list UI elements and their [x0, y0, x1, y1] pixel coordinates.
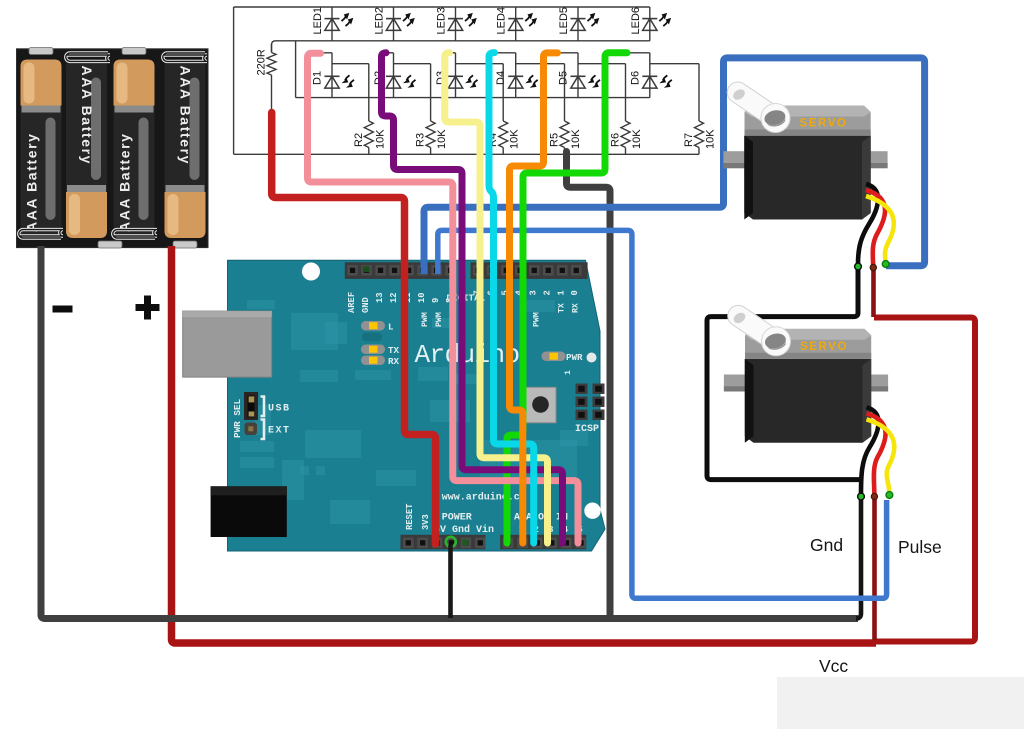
svg-text:LED3: LED3	[436, 7, 448, 35]
node servo2 red connector	[871, 493, 877, 499]
svg-text:Arduino: Arduino	[415, 340, 520, 370]
svg-text:LED5: LED5	[558, 7, 570, 35]
svg-text:PWM: PWM	[421, 312, 430, 327]
svg-text:PWR: PWR	[566, 352, 583, 363]
svg-text:PWM: PWM	[435, 312, 444, 327]
node servo1 yellow connector	[882, 261, 889, 268]
svg-text:PWM: PWM	[533, 312, 542, 327]
resistor R1 220R	[256, 44, 277, 115]
wire schematic R5 node to ground rail	[567, 152, 611, 619]
svg-text:Pulse: Pulse	[898, 537, 942, 557]
svg-text:R2: R2	[353, 133, 365, 147]
wire branch D5 to R6	[578, 63, 626, 65]
svg-text:10K: 10K	[436, 129, 448, 149]
svg-text:PWR SEL: PWR SEL	[232, 399, 243, 438]
wire branch D1 to R2	[332, 63, 369, 65]
resistor R5 10K	[549, 64, 583, 155]
svg-text:Gnd: Gnd	[810, 535, 843, 555]
wire Arduino GND pin to ground rail	[448, 545, 453, 618]
svg-text:9: 9	[431, 298, 441, 303]
svg-text:AAA Battery: AAA Battery	[117, 132, 133, 232]
node servo1 red connector	[870, 264, 876, 270]
wire LED cathode rail	[272, 41, 650, 52]
photodiode D6	[627, 53, 672, 98]
servo M2 lead wires	[861, 407, 894, 494]
wire servo1 signal (blue) to Arduino pin 10	[424, 58, 925, 274]
wire left edge of schematic box	[233, 7, 235, 154]
svg-text:RESET: RESET	[405, 503, 415, 530]
svg-text:AAA Battery: AAA Battery	[178, 66, 194, 166]
svg-text:RX: RX	[388, 356, 400, 367]
node servo2 black connector	[858, 493, 865, 500]
svg-text:AAA Battery: AAA Battery	[79, 66, 95, 166]
svg-text:1: 1	[564, 370, 573, 375]
wire top rail of LED box	[234, 6, 650, 8]
wire servo2 black tail to ground rail	[856, 496, 861, 619]
svg-text:TX: TX	[388, 345, 400, 356]
svg-text:12: 12	[389, 292, 399, 303]
ICSP header	[564, 370, 605, 435]
svg-text:TX: TX	[557, 303, 566, 313]
Arduino Uno board U1	[183, 260, 605, 551]
svg-text:3V3: 3V3	[421, 514, 431, 530]
svg-text:220R: 220R	[256, 49, 268, 75]
svg-text:LED6: LED6	[630, 7, 642, 35]
wire orange D5 to A1	[510, 53, 558, 543]
svg-text:10K: 10K	[631, 129, 643, 149]
wire branch D3 to R4	[456, 63, 504, 65]
analog header	[500, 535, 586, 550]
svg-text:10K: 10K	[509, 129, 521, 149]
photodiode D5	[558, 53, 601, 98]
svg-text:R3: R3	[415, 133, 427, 147]
wire green D6 to A0	[507, 53, 627, 543]
svg-text:L: L	[388, 322, 394, 333]
svg-text:0: 0	[570, 290, 580, 295]
svg-text:EXT: EXT	[268, 426, 291, 437]
node servo1 black connector	[855, 263, 862, 270]
LED LED3	[436, 7, 477, 41]
wire cyan D4 to A2	[489, 53, 534, 543]
svg-text:D5: D5	[558, 71, 570, 85]
node battery minus label	[53, 306, 73, 313]
wire branch D6 to R7	[650, 63, 699, 65]
power jack	[211, 486, 287, 537]
LED RX indicator	[361, 356, 385, 366]
wire yellow D3 to A3	[445, 53, 548, 543]
photodiode D2	[373, 53, 416, 98]
resistor R6 10K	[610, 64, 644, 155]
svg-text:LED2: LED2	[374, 7, 386, 35]
svg-text:D6: D6	[629, 71, 641, 85]
svg-text:2: 2	[542, 290, 552, 295]
svg-text:3: 3	[528, 290, 538, 295]
LED PWR indicator	[542, 352, 566, 362]
svg-text:LED4: LED4	[496, 7, 508, 35]
svg-text:13: 13	[375, 292, 385, 303]
photodiode D1	[312, 53, 355, 98]
svg-text:SERVO: SERVO	[800, 341, 848, 353]
servo M1 lead wires	[858, 184, 894, 266]
wire branch D2 to R3	[394, 63, 431, 65]
svg-text:R6: R6	[610, 133, 622, 147]
wire pink D1 to A5	[308, 53, 579, 543]
svg-text:D4: D4	[495, 71, 507, 85]
svg-text:USB: USB	[268, 404, 291, 415]
svg-text:GND: GND	[361, 297, 371, 313]
wire purple D2 to A4	[382, 53, 563, 543]
svg-text:www.arduino.cc: www.arduino.cc	[442, 492, 526, 504]
reset button	[526, 387, 557, 423]
wire bottom rail of schematic box	[234, 153, 699, 155]
wire servo2 signal (blue) to Arduino pin 9	[438, 230, 887, 598]
wire D-row bottom rail	[296, 97, 650, 99]
battery pack BT1 (4x AAA)	[17, 48, 209, 249]
photodiode D3	[435, 53, 478, 98]
node servo2 yellow connector	[886, 492, 893, 499]
watermark panel bottom right	[777, 677, 1024, 729]
LED L indicator	[361, 321, 385, 331]
resistor R2 10K	[353, 64, 387, 155]
svg-text:R5: R5	[549, 133, 561, 147]
digital header right (7..0)	[575, 262, 588, 279]
resistor R7 10K	[683, 64, 717, 155]
svg-text:10: 10	[417, 292, 427, 303]
PWR SEL jumper	[232, 392, 291, 439]
wire Vcc rail right loop	[874, 318, 975, 642]
svg-text:SERVO: SERVO	[800, 118, 848, 130]
svg-text:AAA Battery: AAA Battery	[24, 132, 40, 232]
wire servo2 red tail to Vcc rail	[872, 496, 877, 640]
LED LED4	[496, 7, 537, 41]
svg-text:10K: 10K	[374, 129, 386, 149]
wire servo1 red tail to Vcc	[871, 266, 876, 317]
digital header left (AREF..8)	[345, 262, 456, 279]
power header	[401, 535, 486, 550]
svg-text:RX: RX	[571, 303, 580, 313]
servo motor M1	[723, 78, 887, 220]
node Arduino GND pin connector	[446, 537, 456, 547]
svg-text:POWER: POWER	[442, 513, 472, 524]
svg-text:1: 1	[556, 290, 566, 295]
wire battery plus to Vcc rail	[172, 246, 877, 643]
LED LED1	[312, 7, 353, 41]
svg-text:10K: 10K	[570, 129, 582, 149]
svg-text:LED1: LED1	[312, 7, 324, 35]
svg-text:ICSP: ICSP	[575, 424, 599, 435]
LED LED5	[558, 7, 599, 41]
photodiode D4	[495, 53, 538, 98]
LED TX indicator	[361, 345, 385, 355]
wire battery minus to ground rail	[41, 246, 858, 619]
resistor R3 10K	[415, 64, 449, 155]
wire servo2 ground frame	[707, 266, 860, 480]
wire 220R to Arduino 5V (red)	[272, 113, 436, 545]
servo motor M2	[724, 301, 888, 443]
node battery plus label	[136, 296, 160, 320]
svg-text:AREF: AREF	[347, 292, 357, 313]
USB connector	[183, 311, 272, 377]
svg-text:D1: D1	[312, 71, 324, 85]
wire branch D4 to R5	[516, 63, 565, 65]
LED LED2	[374, 7, 415, 41]
LED LED6	[630, 7, 671, 41]
resistor R4 10K	[487, 64, 521, 155]
svg-text:5V Gnd Vin: 5V Gnd Vin	[434, 524, 494, 536]
wire D-row left vertical	[295, 41, 297, 98]
svg-text:R7: R7	[683, 133, 695, 147]
svg-text:Vcc: Vcc	[819, 656, 848, 676]
svg-text:10K: 10K	[705, 129, 717, 149]
